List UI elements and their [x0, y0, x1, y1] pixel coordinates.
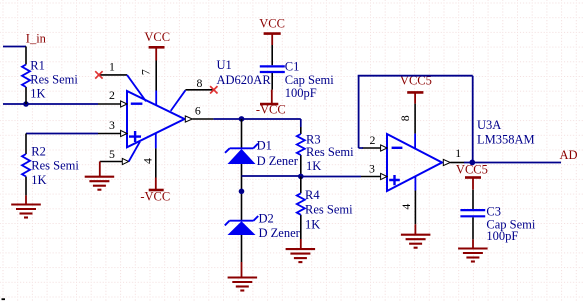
- U1 pin 6 output: [185, 116, 192, 122]
- ground R4: [286, 239, 316, 262]
- svg-text:6: 6: [195, 104, 201, 118]
- wire tap to U3A pin3: [301, 176, 361, 178]
- svg-text:3: 3: [369, 162, 375, 176]
- wire D1 to D2: [241, 164, 243, 221]
- U3A pin 2: [362, 147, 381, 149]
- wire pin6 to junction: [213, 118, 241, 120]
- svg-text:R2: R2: [31, 144, 46, 158]
- wire D2 to ground: [241, 235, 243, 262]
- wire to pin3: [26, 133, 98, 135]
- svg-text:1K: 1K: [30, 87, 45, 101]
- no-connect X on pin 1: [95, 71, 102, 78]
- wire junction to R3 column: [242, 119, 301, 127]
- capacitor C1: [260, 45, 334, 100]
- svg-text:VCC: VCC: [144, 30, 170, 44]
- node junction output: [239, 116, 245, 122]
- node junction R1/bus: [23, 101, 29, 107]
- sheet border mark: [2, 298, 6, 300]
- node junction U3A output: [469, 160, 475, 166]
- power port VCC5 (C3): [456, 162, 488, 189]
- node junction D1/D2: [239, 189, 245, 195]
- resistor R4: [297, 177, 353, 240]
- power port VCC (C1): [259, 17, 285, 45]
- svg-text:VCC5: VCC5: [456, 162, 488, 176]
- no-connect X on pin 8: [210, 86, 217, 93]
- power port -VCC (C1): [256, 90, 286, 117]
- svg-text:8: 8: [398, 115, 412, 121]
- svg-text:D Zener: D Zener: [259, 226, 301, 240]
- svg-text:8: 8: [196, 76, 202, 90]
- U1 pin 4: [155, 133, 157, 148]
- svg-text:D2: D2: [259, 211, 274, 225]
- U1 pin 7: [155, 61, 157, 91]
- U3A body triangle: [387, 134, 442, 191]
- wire feedback top: [358, 75, 473, 77]
- resistor R2: [22, 134, 79, 196]
- svg-text:U1: U1: [217, 58, 232, 72]
- U1 pin 2: [98, 103, 121, 105]
- svg-text:1: 1: [455, 146, 461, 160]
- svg-text:4: 4: [141, 158, 155, 164]
- node junction R3/R4: [298, 174, 304, 180]
- svg-text:7: 7: [138, 69, 152, 75]
- svg-text:4: 4: [399, 204, 413, 210]
- U3A plus symbol: [389, 175, 400, 185]
- U1 pin 8: [185, 89, 213, 91]
- wire I_in: [3, 46, 26, 48]
- svg-text:100pF: 100pF: [285, 86, 317, 100]
- svg-text:1: 1: [109, 59, 115, 73]
- diode D1 zener: [225, 138, 299, 167]
- svg-text:2: 2: [370, 133, 376, 147]
- svg-text:D1: D1: [257, 138, 272, 152]
- wire input bus: [3, 103, 98, 105]
- wire feedback to pin2: [359, 147, 364, 149]
- op-amp U1: [98, 58, 271, 178]
- svg-text:100pF: 100pF: [486, 229, 518, 243]
- svg-text:2: 2: [109, 88, 115, 102]
- wire feedback right: [472, 76, 474, 163]
- svg-text:R4: R4: [305, 188, 320, 202]
- svg-text:AD: AD: [560, 148, 578, 162]
- svg-text:Res Semi: Res Semi: [305, 202, 353, 216]
- power port VCC5 (U3A pin8): [400, 73, 432, 103]
- U1 pin 5: [100, 161, 123, 163]
- svg-text:3: 3: [109, 118, 115, 132]
- resistor R3: [297, 127, 354, 176]
- svg-text:AD620AR: AD620AR: [217, 73, 272, 87]
- svg-text:C1: C1: [285, 60, 300, 74]
- capacitor C3: [460, 190, 535, 243]
- svg-text:D Zener: D Zener: [257, 154, 299, 168]
- svg-text:Cap Semi: Cap Semi: [285, 73, 334, 87]
- ground R2: [11, 195, 41, 217]
- ground D2: [228, 262, 258, 291]
- wire output to AD: [464, 162, 561, 164]
- U1 minus symbol: [131, 102, 143, 104]
- U1 body triangle: [127, 91, 185, 147]
- power port -VCC (U1 pin4): [140, 178, 170, 204]
- svg-text:1K: 1K: [306, 159, 321, 173]
- U3A pin 1 output: [443, 159, 450, 165]
- ground at U1 pin 5: [85, 162, 115, 190]
- svg-text:5: 5: [109, 147, 115, 161]
- wire junction to D1: [241, 119, 243, 148]
- svg-text:1K: 1K: [31, 173, 46, 187]
- svg-text:1K: 1K: [305, 218, 320, 232]
- svg-text:I_in: I_in: [26, 32, 47, 46]
- svg-text:C3: C3: [486, 205, 501, 219]
- wire divider tap: [242, 175, 301, 177]
- svg-text:Res Semi: Res Semi: [31, 158, 79, 172]
- U3A minus symbol: [392, 147, 403, 149]
- svg-text:VCC: VCC: [259, 17, 285, 31]
- U1 pin 3: [98, 133, 121, 135]
- svg-text:-VCC: -VCC: [140, 189, 170, 203]
- ground C3: [458, 239, 488, 261]
- svg-text:LM358AM: LM358AM: [477, 133, 535, 147]
- ground U3A pin 4: [401, 224, 431, 247]
- U1 plus symbol: [129, 131, 141, 142]
- resistor R1: [22, 47, 78, 105]
- svg-text:Res Semi: Res Semi: [30, 73, 78, 87]
- U3A pin 3: [361, 176, 381, 178]
- U3A pin 8: [414, 104, 416, 134]
- svg-text:U3A: U3A: [477, 118, 501, 132]
- U3A pin 4: [414, 177, 416, 191]
- U1 pin 1: [99, 74, 127, 76]
- svg-text:Res Semi: Res Semi: [306, 145, 354, 159]
- svg-text:R1: R1: [30, 59, 45, 73]
- power port VCC (U1 pin7): [144, 30, 170, 61]
- svg-text:-VCC: -VCC: [256, 103, 286, 117]
- op-amp U3A: [361, 104, 535, 225]
- diode D2 zener: [225, 211, 301, 239]
- wire feedback left: [358, 76, 360, 148]
